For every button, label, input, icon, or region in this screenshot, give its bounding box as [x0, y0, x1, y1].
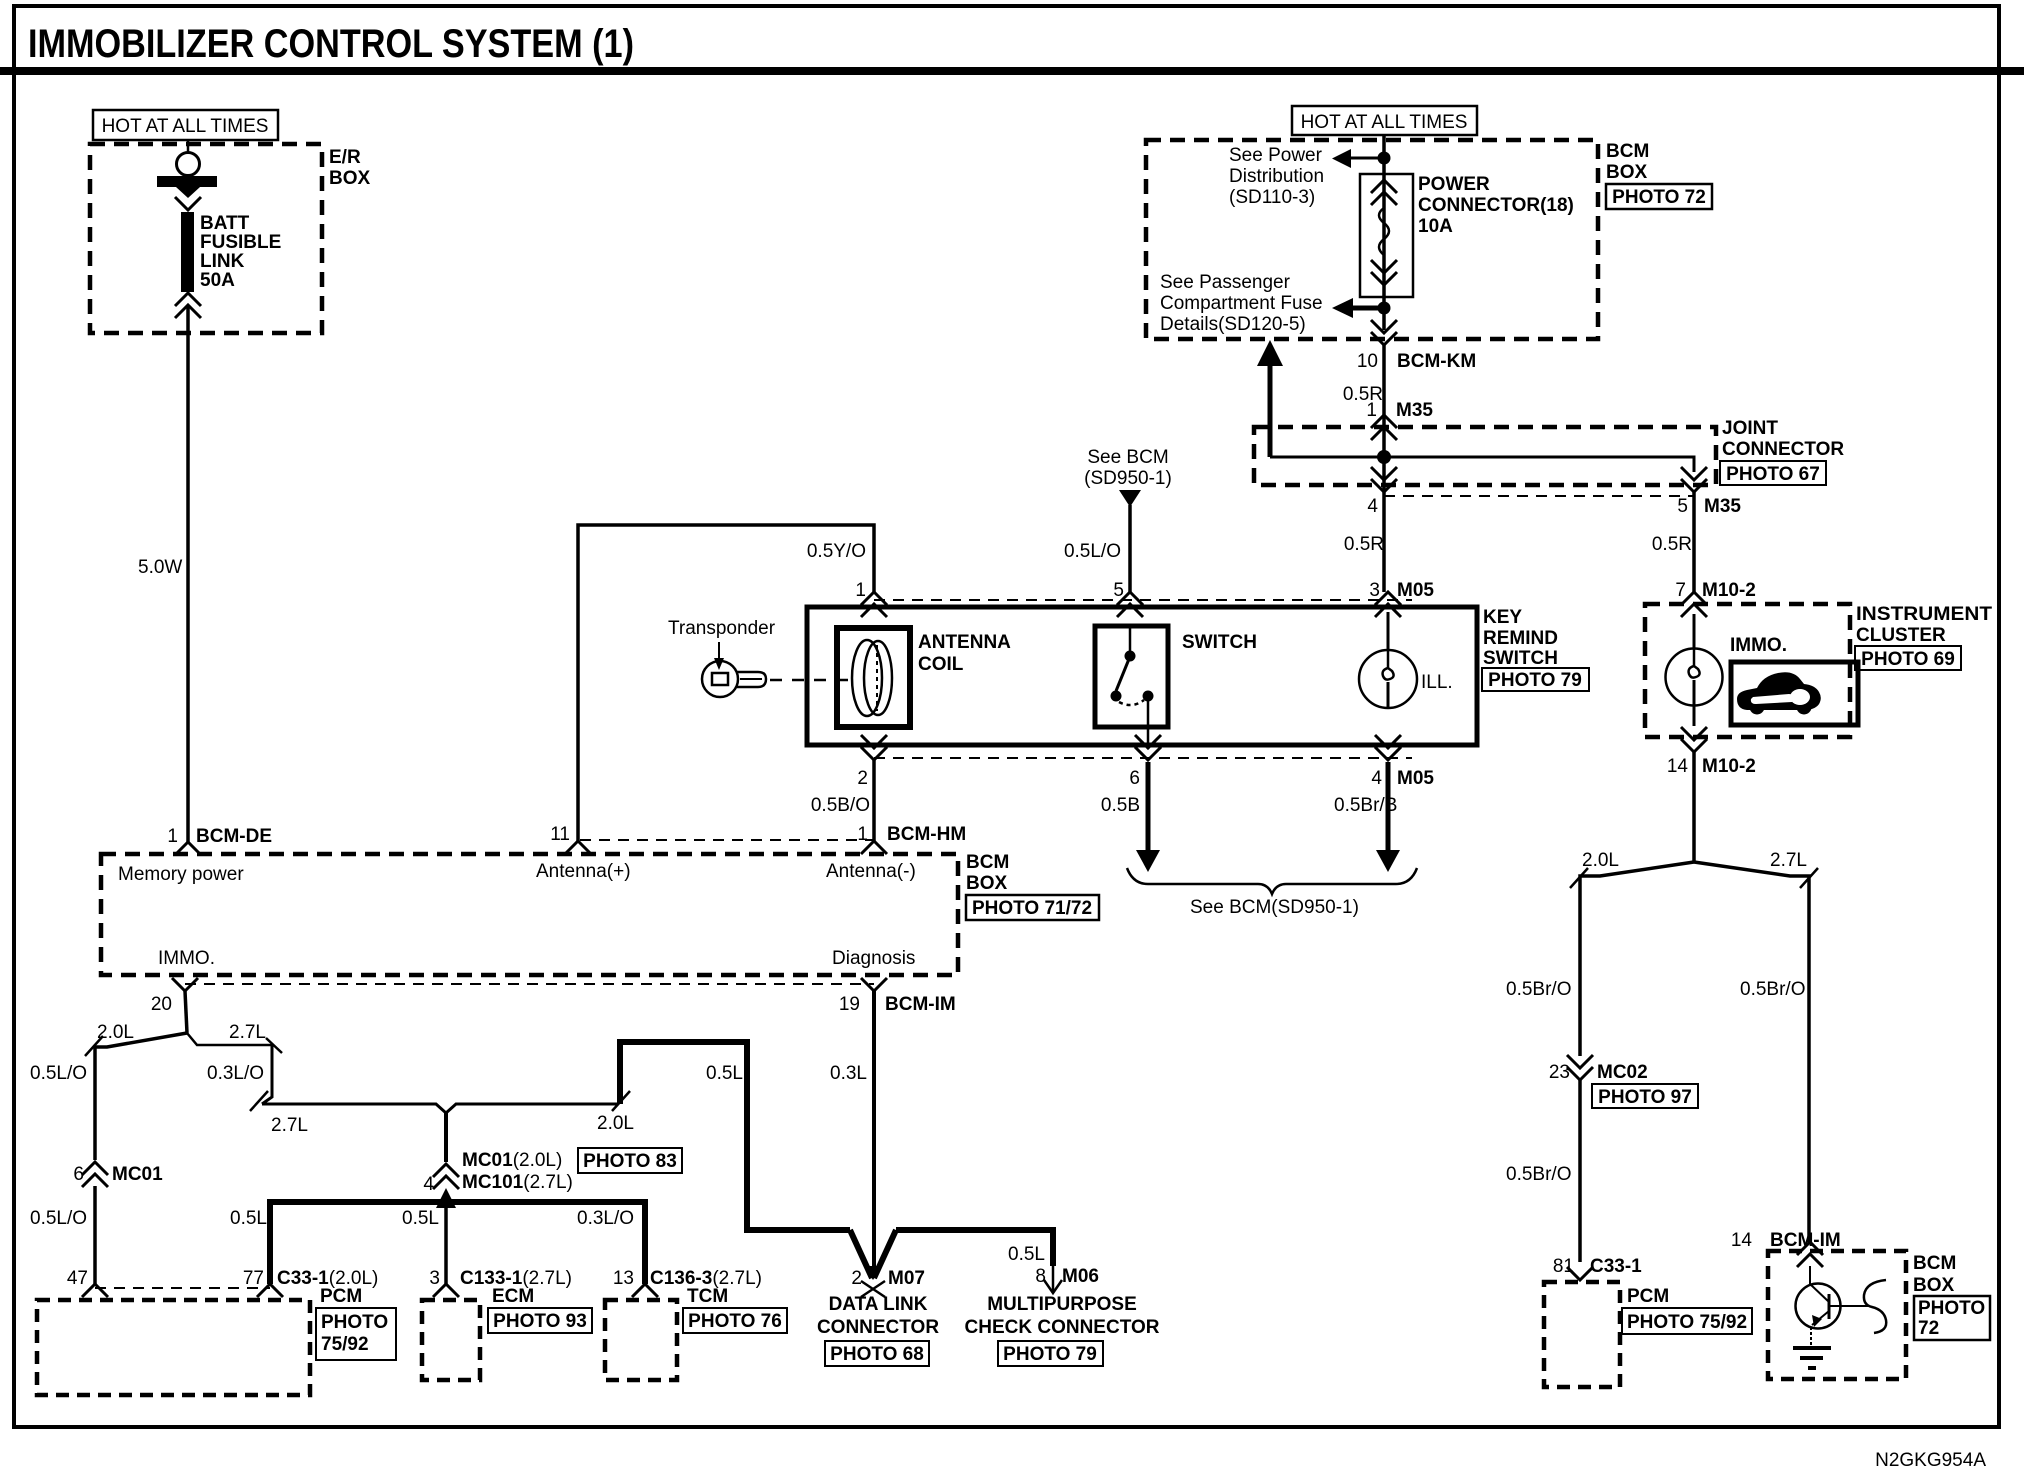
- svg-text:6: 6: [73, 1164, 84, 1185]
- HOT AT ALL TIMES label (right): [1292, 106, 1477, 135]
- pin 5 M35 (joint out right): [1677, 467, 1741, 517]
- svg-text:0.5R: 0.5R: [1344, 534, 1384, 555]
- svg-text:REMIND: REMIND: [1483, 628, 1558, 649]
- svg-text:M05: M05: [1397, 768, 1434, 789]
- svg-text:CONNECTOR: CONNECTOR: [817, 1317, 939, 1338]
- wire 0.5Br/O to PCM: [1506, 1080, 1580, 1262]
- svg-text:3: 3: [429, 1268, 440, 1289]
- wire 0.5R (BCM-KM to M35): [1343, 345, 1384, 415]
- svg-text:5: 5: [1677, 496, 1688, 517]
- svg-text:11: 11: [550, 824, 570, 845]
- pin 14 M10-2: [1667, 727, 1756, 777]
- arrow up from bus to connector 4: [436, 1188, 456, 1208]
- svg-text:14: 14: [1731, 1230, 1753, 1251]
- svg-text:IMMO.: IMMO.: [1730, 635, 1787, 656]
- svg-text:0.3L: 0.3L: [830, 1063, 867, 1084]
- svg-text:See BCM(SD950-1): See BCM(SD950-1): [1190, 897, 1359, 918]
- key remind switch contact box: [1095, 626, 1257, 745]
- svg-text:PCM: PCM: [1627, 1286, 1669, 1307]
- INSTRUMENT CLUSTER dashed box: [1645, 604, 1992, 737]
- routing to multipurpose connector: [896, 1230, 1053, 1266]
- junction node (power distribution): [1332, 149, 1391, 168]
- transponder coupling dashed line: [770, 679, 856, 682]
- svg-text:Antenna(+): Antenna(+): [536, 861, 631, 882]
- IMMO car icon: [1731, 662, 1858, 725]
- pin 1 M35: [1366, 400, 1433, 440]
- svg-text:BCM: BCM: [1913, 1253, 1956, 1274]
- svg-text:IMMO.: IMMO.: [158, 948, 215, 969]
- svg-text:19: 19: [839, 994, 860, 1015]
- svg-text:BOX: BOX: [1606, 162, 1648, 183]
- IMMO. indicator lamp: [1666, 614, 1788, 726]
- svg-text:ANTENNA: ANTENNA: [918, 632, 1011, 653]
- svg-text:6: 6: [1129, 768, 1140, 789]
- ECM dashed box: [422, 1286, 592, 1380]
- svg-text:72: 72: [1918, 1318, 1939, 1339]
- antenna(-) wire 0.5B/O: [811, 758, 874, 841]
- BCM BOX dashed enclosure (middle left): [101, 854, 958, 975]
- svg-text:LINK: LINK: [200, 251, 245, 272]
- svg-text:MC01(2.0L): MC01(2.0L): [462, 1150, 562, 1171]
- svg-text:4: 4: [423, 1174, 434, 1195]
- svg-text:N2GKG954A: N2GKG954A: [1875, 1450, 1986, 1471]
- pin 47 PCM: [67, 1268, 108, 1297]
- BCM BOX PHOTO 72 label (top right): [1606, 141, 1712, 209]
- svg-text:M35: M35: [1396, 400, 1433, 421]
- svg-text:PHOTO: PHOTO: [1918, 1298, 1985, 1319]
- svg-text:5: 5: [1113, 580, 1124, 601]
- pin 81 C33-1: [1553, 1256, 1642, 1280]
- svg-text:75/92: 75/92: [321, 1334, 369, 1355]
- MULTIPURPOSE CHECK CONNECTOR label: [965, 1294, 1160, 1366]
- svg-text:See BCM: See BCM: [1087, 447, 1168, 468]
- pin 3 C133-1: [429, 1268, 572, 1297]
- svg-text:CONNECTOR(18): CONNECTOR(18): [1418, 195, 1574, 216]
- See BCM (SD950-1) feed to switch: [1064, 447, 1172, 592]
- svg-text:0.3L/O: 0.3L/O: [577, 1208, 634, 1229]
- svg-text:77: 77: [243, 1268, 264, 1289]
- svg-text:0.5L: 0.5L: [402, 1208, 439, 1229]
- svg-text:MC02: MC02: [1597, 1062, 1648, 1083]
- pin 11 Antenna(+): [550, 824, 591, 854]
- svg-text:See Passenger: See Passenger: [1160, 272, 1291, 293]
- svg-text:BOX: BOX: [966, 873, 1008, 894]
- HOT AT ALL TIMES label (left): [93, 110, 278, 140]
- DATA LINK CONNECTOR label: [817, 1294, 939, 1366]
- thick 0.5L routing to data link: [620, 1042, 850, 1230]
- title text: [28, 22, 634, 66]
- svg-text:0.5L/O: 0.5L/O: [1064, 541, 1121, 562]
- svg-text:PHOTO: PHOTO: [321, 1312, 388, 1333]
- svg-text:POWER: POWER: [1418, 174, 1490, 195]
- wire 5.0W from E/R box to BCM-DE: [138, 306, 188, 842]
- connector chevrons below fusible link: [175, 293, 201, 318]
- svg-text:PHOTO 71/72: PHOTO 71/72: [972, 898, 1092, 919]
- svg-text:BOX: BOX: [1913, 1275, 1955, 1296]
- ground: [1793, 1348, 1831, 1368]
- antenna(+) wire 0.5Y/O: [578, 525, 874, 841]
- svg-text:PHOTO 75/92: PHOTO 75/92: [1627, 1312, 1747, 1333]
- svg-text:8: 8: [1035, 1266, 1046, 1287]
- svg-text:2.0L: 2.0L: [597, 1113, 634, 1134]
- KEY REMIND SWITCH box: [807, 607, 1589, 745]
- svg-text:PHOTO 79: PHOTO 79: [1488, 670, 1582, 691]
- svg-text:0.5Br/O: 0.5Br/O: [1506, 979, 1571, 1000]
- svg-text:MC01: MC01: [112, 1164, 163, 1185]
- connector M05 dashed line (bottom): [874, 757, 1412, 759]
- pin 19 BCM-IM: [839, 978, 956, 1015]
- PCM dashed box (right): [1544, 1282, 1752, 1387]
- svg-text:2.7L: 2.7L: [1770, 850, 1807, 871]
- svg-text:SWITCH: SWITCH: [1182, 632, 1257, 653]
- svg-text:2: 2: [851, 1268, 862, 1289]
- pin 4 M35 (joint out left): [1344, 457, 1397, 592]
- svg-text:Diagnosis: Diagnosis: [832, 948, 915, 969]
- svg-text:BCM: BCM: [1606, 141, 1649, 162]
- svg-text:Antenna(-): Antenna(-): [826, 861, 916, 882]
- svg-text:4: 4: [1371, 768, 1382, 789]
- svg-text:CONNECTOR: CONNECTOR: [1722, 439, 1844, 460]
- svg-text:10: 10: [1357, 351, 1378, 372]
- svg-text:0.3L/O: 0.3L/O: [207, 1063, 264, 1084]
- svg-text:BATT: BATT: [200, 213, 250, 234]
- svg-text:2: 2: [857, 768, 868, 789]
- svg-text:BCM-IM: BCM-IM: [885, 994, 956, 1015]
- svg-text:M07: M07: [888, 1268, 925, 1289]
- svg-text:PHOTO 76: PHOTO 76: [688, 1311, 782, 1332]
- pin 1 BCM-HM: [857, 824, 966, 854]
- svg-text:ILL.: ILL.: [1421, 672, 1453, 693]
- svg-text:PHOTO 93: PHOTO 93: [493, 1311, 587, 1332]
- svg-text:ECM: ECM: [492, 1286, 534, 1307]
- connector M35 dashed line: [1384, 495, 1694, 497]
- wire 0.5Br/B to BCM (thick arrow): [1334, 762, 1400, 872]
- svg-text:MULTIPURPOSE: MULTIPURPOSE: [987, 1294, 1137, 1315]
- pin 20 engine split (2.0L / 2.7L): [30, 991, 272, 1160]
- junction node (passenger fuse): [1332, 298, 1391, 318]
- brace See BCM(SD950-1): [1127, 868, 1417, 918]
- svg-text:13: 13: [613, 1268, 634, 1289]
- See Passenger Compartment Fuse note: [1160, 272, 1323, 335]
- svg-text:MC101(2.7L): MC101(2.7L): [462, 1172, 573, 1193]
- svg-text:COIL: COIL: [918, 654, 964, 675]
- pin 13 C136-3: [613, 1268, 762, 1297]
- svg-text:47: 47: [67, 1268, 88, 1289]
- fusible link BATT 50A: [181, 212, 281, 292]
- pin 1 BCM-DE: [167, 826, 272, 855]
- power feed wire: [1382, 135, 1386, 308]
- svg-text:HOT AT ALL TIMES: HOT AT ALL TIMES: [1301, 112, 1468, 133]
- svg-text:0.5B/O: 0.5B/O: [811, 795, 870, 816]
- svg-text:Compartment Fuse: Compartment Fuse: [1160, 293, 1323, 314]
- svg-text:See Power: See Power: [1229, 145, 1323, 166]
- BCM BOX PHOTO 71/72 label: [966, 852, 1099, 920]
- svg-text:FUSIBLE: FUSIBLE: [200, 232, 281, 253]
- svg-text:CLUSTER: CLUSTER: [1856, 625, 1946, 646]
- svg-text:Distribution: Distribution: [1229, 166, 1324, 187]
- svg-text:0.5L: 0.5L: [1008, 1244, 1045, 1265]
- svg-text:M35: M35: [1704, 496, 1741, 517]
- svg-text:0.5L/O: 0.5L/O: [30, 1208, 87, 1229]
- wire 0.5R to instrument cluster: [1652, 492, 1694, 592]
- svg-text:0.5L: 0.5L: [230, 1208, 267, 1229]
- pin 77 C33-1: [243, 1268, 379, 1297]
- wire 0.3L/O branch: [250, 1038, 282, 1111]
- svg-text:Transponder: Transponder: [668, 618, 776, 639]
- svg-text:0.5Br/B: 0.5Br/B: [1334, 795, 1397, 816]
- pin 1 antenna coil: [855, 580, 887, 617]
- pin 10 BCM-KM: [1357, 308, 1476, 372]
- svg-text:0.5Br/O: 0.5Br/O: [1740, 979, 1805, 1000]
- connector M05 dashed line (top): [874, 599, 1412, 601]
- antenna coil box: [837, 628, 1011, 727]
- svg-text:JOINT: JOINT: [1722, 418, 1778, 439]
- svg-text:PHOTO 83: PHOTO 83: [583, 1151, 677, 1172]
- pin 8 M06 arrow: [1035, 1266, 1099, 1293]
- svg-text:PHOTO 68: PHOTO 68: [830, 1344, 924, 1365]
- joint connector internal wire: [1270, 415, 1694, 472]
- svg-text:1: 1: [855, 580, 866, 601]
- svg-text:HOT AT ALL TIMES: HOT AT ALL TIMES: [102, 116, 269, 137]
- svg-text:IMMOBILIZER CONTROL SYSTEM (1): IMMOBILIZER CONTROL SYSTEM (1): [28, 22, 634, 66]
- drawing number: [1875, 1450, 1986, 1471]
- svg-text:BCM-KM: BCM-KM: [1397, 351, 1476, 372]
- svg-text:50A: 50A: [200, 270, 235, 291]
- connector dashed line pins 47-77: [95, 1287, 270, 1289]
- svg-text:20: 20: [151, 994, 172, 1015]
- svg-text:14: 14: [1667, 756, 1689, 777]
- transponder key: [668, 618, 776, 697]
- svg-text:PHOTO 67: PHOTO 67: [1726, 464, 1820, 485]
- pin 20 IMMO.: [151, 978, 198, 1015]
- svg-text:TCM: TCM: [687, 1286, 728, 1307]
- BCM BOX dashed box (bottom right): [1768, 1251, 1990, 1379]
- E/R BOX dashed enclosure: [90, 144, 371, 333]
- svg-text:2.0L: 2.0L: [97, 1022, 134, 1043]
- svg-text:0.5L/O: 0.5L/O: [30, 1063, 87, 1084]
- connector dashed line below BCM box: [185, 983, 874, 985]
- svg-text:0.5B: 0.5B: [1101, 795, 1140, 816]
- arrow up to BCM box: [1257, 340, 1283, 457]
- svg-text:BCM: BCM: [966, 852, 1009, 873]
- POWER CONNECTOR(18) 10A: [1360, 174, 1574, 297]
- svg-text:2.7L: 2.7L: [271, 1115, 308, 1136]
- svg-text:BCM-IM: BCM-IM: [1770, 1230, 1841, 1251]
- JOINT CONNECTOR dashed box: [1254, 418, 1844, 485]
- svg-text:SWITCH: SWITCH: [1483, 648, 1558, 669]
- connector dashed line BCM-HM row: [580, 839, 874, 841]
- svg-text:81: 81: [1553, 1256, 1574, 1277]
- svg-text:7: 7: [1675, 580, 1686, 601]
- thick bus to C33-1/C133-1/C136-3: [230, 1202, 645, 1284]
- svg-text:1: 1: [1366, 400, 1377, 421]
- connector chevron below bus bar: [175, 197, 201, 210]
- svg-text:4: 4: [1367, 496, 1378, 517]
- wire 0.5B to BCM (thick arrow): [1101, 762, 1160, 872]
- svg-text:2.0L: 2.0L: [1582, 850, 1619, 871]
- pin 2 M07: [851, 1268, 925, 1297]
- svg-text:(SD950-1): (SD950-1): [1084, 468, 1172, 489]
- svg-text:CHECK CONNECTOR: CHECK CONNECTOR: [965, 1317, 1160, 1338]
- svg-text:(SD110-3): (SD110-3): [1229, 187, 1315, 208]
- pin 7 M10-2: [1675, 580, 1755, 617]
- svg-text:C33-1: C33-1: [1590, 1256, 1642, 1277]
- pin 4 M05: [1371, 735, 1434, 789]
- svg-text:BCM-HM: BCM-HM: [887, 824, 966, 845]
- svg-text:0.5R: 0.5R: [1652, 534, 1692, 555]
- svg-text:Details(SD120-5): Details(SD120-5): [1160, 314, 1306, 335]
- svg-text:1: 1: [167, 826, 178, 847]
- coil squiggle: [1864, 1280, 1886, 1333]
- BCM-IM wire 0.3L: [830, 991, 874, 1278]
- BCM BOX dashed enclosure (top right): [1146, 140, 1598, 339]
- svg-text:M05: M05: [1397, 580, 1434, 601]
- svg-text:PHOTO 79: PHOTO 79: [1003, 1344, 1097, 1365]
- svg-text:23: 23: [1549, 1062, 1570, 1083]
- svg-text:1: 1: [857, 824, 868, 845]
- svg-text:0.5Br/O: 0.5Br/O: [1506, 1164, 1571, 1185]
- svg-text:M10-2: M10-2: [1702, 756, 1756, 777]
- svg-text:PHOTO 69: PHOTO 69: [1861, 649, 1955, 670]
- svg-text:PHOTO 72: PHOTO 72: [1612, 187, 1706, 208]
- pin 6 MC01: [73, 1162, 163, 1187]
- TCM dashed box: [605, 1286, 787, 1380]
- svg-text:M06: M06: [1062, 1266, 1099, 1287]
- svg-text:M10-2: M10-2: [1702, 580, 1756, 601]
- svg-text:KEY: KEY: [1483, 607, 1522, 628]
- svg-text:0.5Y/O: 0.5Y/O: [807, 541, 866, 562]
- engine bus 2.7L/2.0L: [262, 1091, 634, 1136]
- svg-text:BCM-DE: BCM-DE: [196, 826, 272, 847]
- svg-text:PCM: PCM: [320, 1286, 362, 1307]
- wire junction to connector 4: [444, 1112, 448, 1162]
- svg-text:DATA LINK: DATA LINK: [829, 1294, 928, 1315]
- svg-text:Memory power: Memory power: [118, 864, 244, 885]
- svg-text:PHOTO 97: PHOTO 97: [1598, 1087, 1692, 1108]
- battery bus bar: [157, 176, 217, 198]
- svg-text:3: 3: [1369, 580, 1380, 601]
- connector 4 MC01/MC101: [423, 1148, 682, 1195]
- battery terminal circle: [177, 140, 200, 176]
- svg-text:5.0W: 5.0W: [138, 557, 182, 578]
- pin 14 BCM-IM (right): [1731, 1230, 1841, 1267]
- See Power Distribution note: [1229, 145, 1324, 208]
- data link V junction: [850, 1230, 896, 1280]
- svg-text:BOX: BOX: [329, 168, 371, 189]
- transistor Q (BCM output): [1796, 1266, 1871, 1346]
- pin 5 switch: [1113, 580, 1143, 617]
- wire from cluster to engine split: [1692, 752, 1696, 862]
- wire 0.5L/O to PCM pin 47: [30, 1186, 95, 1284]
- connector 23 MC02: [1549, 1055, 1698, 1108]
- ILL. lamp: [1359, 612, 1453, 708]
- engine variant split right (2.0L / 2.7L): [1506, 850, 1818, 1242]
- svg-text:INSTRUMENT: INSTRUMENT: [1856, 604, 1992, 625]
- svg-text:0.5L: 0.5L: [706, 1063, 743, 1084]
- pin 3 M05: [1369, 580, 1434, 617]
- pin 6 switch: [1129, 735, 1161, 789]
- title band rule: [0, 67, 2024, 75]
- svg-text:E/R: E/R: [329, 147, 361, 168]
- pin 2 antenna coil: [857, 735, 887, 789]
- svg-text:2.7L: 2.7L: [229, 1022, 266, 1043]
- svg-text:10A: 10A: [1418, 216, 1453, 237]
- PCM dashed box: [37, 1286, 396, 1395]
